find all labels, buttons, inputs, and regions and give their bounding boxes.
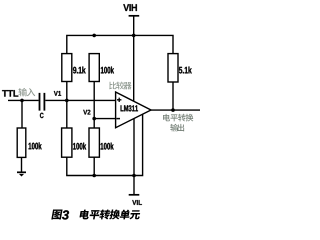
wire: R4 top lead from V1 node xyxy=(66,100,68,128)
resistor R3 value label 100k xyxy=(101,67,114,74)
resistor R2 9.1k body xyxy=(62,54,72,82)
capacitor C plates xyxy=(40,93,45,111)
power VIH label xyxy=(123,4,137,11)
node V1 label xyxy=(54,91,61,96)
wire: drop to VIL supply symbol xyxy=(133,176,135,195)
caption: figure number 3 xyxy=(62,210,69,219)
label TTL input (shu ru) xyxy=(18,88,27,96)
op-amp - input marker xyxy=(116,118,120,120)
wire: R1 top lead xyxy=(21,100,23,128)
power VIL bar symbol xyxy=(129,194,140,196)
label comparator (bi jiao qi) xyxy=(109,82,116,90)
wire: R5 top lead from V2 node xyxy=(93,119,95,128)
wire: R5 bottom lead to VIL rail xyxy=(93,157,95,175)
node: junction dot VIL rail xyxy=(132,174,136,178)
node: junction dot rail/R3 xyxy=(92,34,96,38)
op-amp U1 LM311 comparator triangle xyxy=(116,92,151,128)
wire: comparator GND pin down to VIL rail xyxy=(133,119,135,176)
node: junction dot R5/VIL rail xyxy=(92,174,96,178)
wire: R6 bottom to output node xyxy=(172,82,174,110)
op-amp U1 label LM311 xyxy=(121,105,138,111)
ground symbol bar xyxy=(17,171,26,173)
wire: V2 node to comparator - input xyxy=(94,118,115,120)
resistor R4 value label 100k xyxy=(73,143,86,150)
node: junction dot V1/R2/R4 xyxy=(65,99,69,103)
wire: TTL input to capacitor left plate xyxy=(8,99,39,101)
caption: figure 3 (tu) xyxy=(51,209,62,219)
wire: R1 bottom to ground xyxy=(21,157,23,172)
resistor R2 value label 9.1k xyxy=(73,67,86,74)
label level-shift output line2 (shu chu) xyxy=(170,124,178,132)
wire: top VIH supply rail with drops to R2 and R6 xyxy=(67,35,173,53)
ground symbol triangle xyxy=(19,174,24,177)
op-amp + input marker xyxy=(117,98,121,102)
resistor R3 100k body xyxy=(89,54,99,82)
resistor R1 100k body xyxy=(17,128,26,157)
node V2 label xyxy=(83,110,90,115)
resistor R6 value label 5.1k xyxy=(179,67,192,74)
wire: R2 bottom to V1 node xyxy=(66,82,68,101)
wire: VIH drop down to comparator V+ pin xyxy=(133,16,135,102)
power VIH bar symbol xyxy=(129,15,140,17)
capacitor C value label xyxy=(40,113,44,118)
caption: level conversion unit (dian ping zhuan huan dan yuan) xyxy=(79,210,90,220)
node: junction dot rail/VIH drop xyxy=(132,34,136,38)
resistor R5 100k body xyxy=(89,128,99,157)
node: junction dot input/R1 xyxy=(20,99,24,103)
node: junction dot output/R6 xyxy=(171,108,175,112)
resistor R4 100k body xyxy=(62,128,72,157)
wire: R3 bottom crossing V1 wire down to V2 node xyxy=(93,82,95,119)
resistor R5 value label 100k xyxy=(101,143,114,150)
power VIL label xyxy=(132,200,142,205)
label level-shift output line1 (dian ping zhuan huan) xyxy=(163,114,170,121)
node: junction dot V2 xyxy=(92,117,96,121)
resistor R6 5.1k body (output pull-up) xyxy=(168,54,178,82)
wire: capacitor right plate to comparator + input (node V1) xyxy=(45,99,115,101)
resistor R1 value label 100k xyxy=(29,142,42,149)
label TTL input (TTL) xyxy=(2,90,18,96)
wire: comparator output xyxy=(151,109,200,111)
wire: bottom VIL rail from R4 bottom to comparator right pin xyxy=(67,114,143,175)
